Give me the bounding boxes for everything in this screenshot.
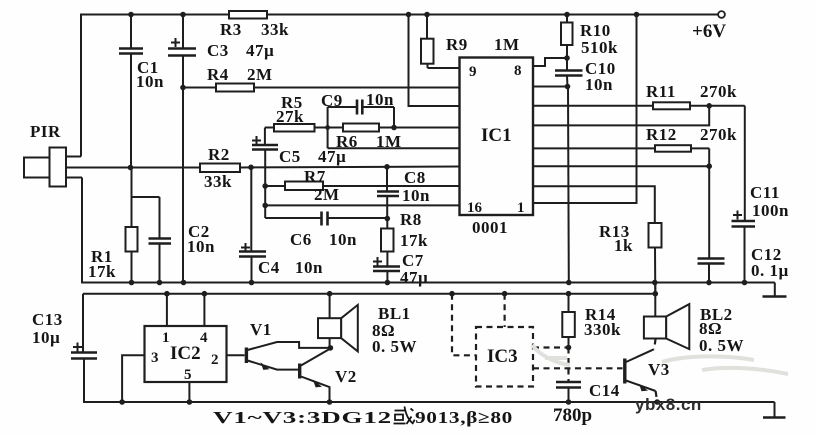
capacitor C2 xyxy=(132,197,216,283)
svg-text:1M: 1M xyxy=(494,35,520,54)
svg-text:4: 4 xyxy=(200,330,208,346)
svg-text:10n: 10n xyxy=(136,72,164,91)
wire upper ground rail xyxy=(82,282,775,284)
svg-text:33k: 33k xyxy=(261,20,289,39)
speaker BL1 xyxy=(318,294,417,356)
svg-text:0001: 0001 xyxy=(472,218,508,237)
svg-text:1k: 1k xyxy=(614,236,633,255)
op-amp IC1 xyxy=(460,58,534,216)
junction dots on lower box top line xyxy=(164,291,658,297)
wire IC1 pin to R13 xyxy=(533,186,655,223)
svg-text:C14: C14 xyxy=(589,381,620,400)
svg-text:V1: V1 xyxy=(250,320,272,339)
svg-text:ybx8.cn: ybx8.cn xyxy=(635,395,702,414)
svg-text:PIR: PIR xyxy=(30,122,61,141)
svg-text:C6: C6 xyxy=(290,230,312,249)
svg-text:C13: C13 xyxy=(32,310,63,329)
svg-text:R8: R8 xyxy=(400,210,422,229)
svg-text:33k: 33k xyxy=(204,172,232,191)
op-amp IC2 xyxy=(145,326,227,382)
value 0001 xyxy=(472,218,508,237)
dashed wire IC3 to R14 node xyxy=(533,346,569,348)
wire C9/R6 loop to IC1 lower pin xyxy=(328,107,460,148)
svg-text:2: 2 xyxy=(211,352,219,368)
ground symbol upper right xyxy=(763,283,787,297)
wire C10 bottom to ground rail xyxy=(567,87,570,283)
wire R13/ground bridge to BL2 xyxy=(654,283,656,294)
svg-text:C4: C4 xyxy=(258,258,280,277)
capacitor C10 xyxy=(533,59,616,94)
capacitor C7 xyxy=(373,251,428,287)
svg-text:10n: 10n xyxy=(295,258,323,277)
wire PIR signal to R2 xyxy=(66,165,200,171)
dashed wire IC3 to V3 base xyxy=(533,367,623,369)
svg-text:C3: C3 xyxy=(207,41,229,60)
svg-text:R12: R12 xyxy=(646,125,677,144)
resistor R5 xyxy=(274,93,343,132)
wire pin8 step to R10 node xyxy=(533,55,570,66)
svg-text:C8: C8 xyxy=(404,168,426,187)
resistor R7 xyxy=(262,167,459,204)
dashed wire to IC3 left xyxy=(452,294,476,356)
capacitor C5 xyxy=(252,128,346,219)
svg-text:C9: C9 xyxy=(321,91,343,110)
svg-text:V2: V2 xyxy=(335,367,357,386)
pin 2 of IC2 xyxy=(211,352,245,368)
wire R11 feedback to IC1 xyxy=(533,106,709,126)
svg-text:330k: 330k xyxy=(584,320,621,339)
pin 16 xyxy=(467,200,483,216)
wire supply to IC1 right lower pin xyxy=(533,15,637,204)
dashed wire to IC3 top xyxy=(504,294,506,327)
svg-text:10n: 10n xyxy=(585,75,613,94)
svg-text:47µ: 47µ xyxy=(246,41,274,60)
wire R12 output down to C12 xyxy=(706,148,712,258)
wire to IC1 pin16 xyxy=(262,203,459,209)
svg-text:V1~V3:3DG12: V1~V3:3DG12 xyxy=(213,408,392,427)
resistor R14 xyxy=(562,294,621,351)
pin 9 xyxy=(469,64,477,80)
svg-text:17k: 17k xyxy=(88,262,116,281)
transistor V2 xyxy=(300,349,357,403)
resistor R2 xyxy=(200,145,240,191)
svg-text:R3: R3 xyxy=(220,20,242,39)
svg-text:+6V: +6V xyxy=(692,21,726,42)
svg-text:27k: 27k xyxy=(276,107,304,126)
svg-text:R7: R7 xyxy=(304,167,326,186)
svg-text:10n: 10n xyxy=(329,230,357,249)
svg-text:2M: 2M xyxy=(314,185,340,204)
speaker BL2 xyxy=(644,294,744,355)
caption V1~V3 3DG12 or 9013 xyxy=(213,408,513,427)
svg-text:47µ: 47µ xyxy=(400,268,428,287)
ground symbol lower right xyxy=(763,402,786,418)
pin 4 of IC2 xyxy=(200,294,208,346)
svg-text:V3: V3 xyxy=(648,360,670,379)
wire lower box bottom rail xyxy=(83,401,775,403)
svg-text:5: 5 xyxy=(184,367,192,383)
resistor R10 xyxy=(561,15,618,71)
pin 1 xyxy=(517,200,525,216)
wire IC1 pin to R12 node xyxy=(533,165,709,167)
junction dots on bottom rail xyxy=(119,399,660,405)
transistor V3 xyxy=(625,349,670,402)
pin 8 xyxy=(514,63,522,79)
capacitor C4 xyxy=(239,168,323,284)
svg-text:10n: 10n xyxy=(187,237,215,256)
svg-text:270k: 270k xyxy=(700,82,737,101)
svg-text:C5: C5 xyxy=(279,147,301,166)
svg-text:780p: 780p xyxy=(553,405,592,426)
capacitor C6 xyxy=(265,212,387,250)
faint site watermark xyxy=(532,345,788,374)
svg-text:0. 1µ: 0. 1µ xyxy=(751,261,789,280)
svg-text:9: 9 xyxy=(469,64,477,80)
svg-text:1: 1 xyxy=(517,200,525,216)
svg-text:10µ: 10µ xyxy=(32,328,60,347)
resistor R8 xyxy=(381,210,428,266)
svg-text:8: 8 xyxy=(514,63,522,79)
resistor R12 xyxy=(533,125,737,152)
transistor V1 xyxy=(246,320,330,370)
node +6V terminal xyxy=(692,11,726,42)
capacitor C12 xyxy=(698,245,789,283)
svg-text:IC2: IC2 xyxy=(170,343,201,364)
svg-text:C11: C11 xyxy=(750,183,780,202)
svg-text:17k: 17k xyxy=(400,231,428,250)
capacitor C1 xyxy=(119,15,164,168)
wire PIR pins xyxy=(66,157,82,178)
svg-text:0. 5W: 0. 5W xyxy=(699,336,744,355)
capacitor C11 xyxy=(732,106,790,283)
wire lower box top line xyxy=(83,293,655,295)
capacitor C3 xyxy=(168,15,274,284)
pin 1 of IC2 xyxy=(162,294,170,346)
svg-text:0. 5W: 0. 5W xyxy=(372,337,417,356)
svg-text:2M: 2M xyxy=(247,65,273,84)
svg-text:3: 3 xyxy=(151,350,159,366)
wire supply to IC1 left pin xyxy=(409,15,460,107)
svg-text:16: 16 xyxy=(467,200,483,216)
resistor R4 xyxy=(180,65,459,92)
junction dots on upper ground rail xyxy=(129,280,748,286)
svg-text:270k: 270k xyxy=(700,125,737,144)
resistor R1 xyxy=(88,168,138,284)
pin 3 of IC2 xyxy=(122,350,158,402)
wire R2 output to IC1 xyxy=(240,164,460,170)
PIR sensor xyxy=(24,122,66,187)
resistor R9 xyxy=(421,15,520,69)
IC3 dashed box xyxy=(476,327,533,387)
svg-text:510k: 510k xyxy=(581,38,618,57)
capacitor C9 xyxy=(321,90,394,128)
resistor R6 xyxy=(325,124,459,152)
svg-text:IC3: IC3 xyxy=(487,346,518,367)
wire +6V supply top rail xyxy=(81,14,718,16)
wire left edge of upper box xyxy=(81,14,82,284)
resistor R13 xyxy=(599,222,662,294)
svg-text:100n: 100n xyxy=(752,201,789,220)
watermark ybx8.cn xyxy=(635,395,702,414)
resistor R11 xyxy=(533,82,745,109)
resistor R3 xyxy=(220,11,289,39)
svg-text:10n: 10n xyxy=(366,90,394,109)
capacitor C13 xyxy=(32,294,97,402)
svg-text:R2: R2 xyxy=(208,145,230,164)
junction dots on supply rail xyxy=(128,12,639,18)
pin 5 of IC2 xyxy=(184,367,192,402)
svg-text:1: 1 xyxy=(162,330,170,346)
junction V2 collector / BL1 xyxy=(327,345,334,405)
glyph hanzi huo xyxy=(394,407,415,425)
svg-text:R4: R4 xyxy=(207,65,229,84)
svg-text:R11: R11 xyxy=(646,82,676,101)
svg-text:R9: R9 xyxy=(446,35,468,54)
svg-text:IC1: IC1 xyxy=(481,125,512,146)
capacitor C8 xyxy=(377,167,430,222)
capacitor C14 xyxy=(553,348,620,427)
svg-text:9013,β≥80: 9013,β≥80 xyxy=(415,408,513,427)
svg-text:10n: 10n xyxy=(402,186,430,205)
